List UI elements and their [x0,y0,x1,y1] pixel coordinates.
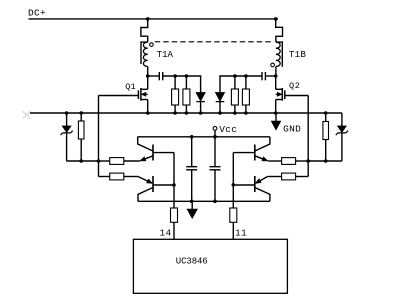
svg-text:14: 14 [160,228,172,239]
svg-text:Vcc: Vcc [219,124,237,135]
svg-text:11: 11 [235,228,247,239]
svg-text:GND: GND [283,124,301,135]
svg-text:DC+: DC+ [28,7,46,18]
svg-text:Q1: Q1 [125,82,135,92]
svg-text:UC3846: UC3846 [176,256,208,266]
svg-text:Q2: Q2 [289,81,301,91]
svg-text:T1A: T1A [157,50,174,60]
svg-text:T1B: T1B [289,49,306,60]
